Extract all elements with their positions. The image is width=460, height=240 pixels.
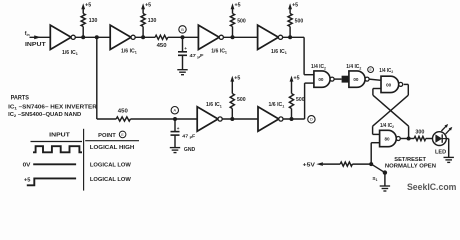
svg-text:00: 00 (318, 77, 324, 82)
node A label (171, 107, 178, 114)
svg-text:1/4 IC2: 1/4 IC2 (380, 123, 394, 129)
svg-text:1/6 IC1: 1/6 IC1 (269, 102, 285, 108)
+5 supply arrow (fourth) (288, 3, 298, 14)
svg-text:+5: +5 (145, 3, 151, 9)
wire NAND1 output, tied inputs of NAND2 (334, 76, 349, 83)
svg-text:+: + (184, 46, 187, 51)
watermark SeekIC.com (407, 182, 456, 192)
wire drop to bottom row (97, 37, 116, 119)
svg-text:00: 00 (386, 83, 392, 88)
svg-text:+: + (177, 126, 180, 131)
svg-text:D: D (310, 117, 313, 122)
ground under LED (444, 157, 454, 162)
ground under S1 (380, 186, 390, 191)
inverter 1/6 IC1 (second) (110, 25, 137, 55)
svg-text:LOGICAL LOW: LOGICAL LOW (90, 177, 132, 183)
svg-text:1/6 IC1: 1/6 IC1 (62, 50, 78, 56)
+5 supply arrow (first) (81, 3, 91, 14)
+5 supply arrow (third) (231, 3, 241, 14)
svg-text:POINT: POINT (98, 133, 116, 139)
wire inverter2 output (135, 35, 155, 39)
svg-text:1/6 IC1: 1/6 IC1 (121, 49, 137, 55)
svg-text:IC1 –SN7406– HEX INVERTER: IC1 –SN7406– HEX INVERTER (8, 104, 97, 110)
parts list text (8, 95, 97, 118)
svg-text:+5: +5 (294, 75, 300, 81)
NAND gate 1/4 IC2 (latch bottom) (380, 123, 401, 147)
svg-text:00: 00 (353, 77, 359, 82)
resistor 450 (top row) (155, 35, 168, 49)
resistor 500 pull-up (fourth) (288, 14, 303, 38)
wire LED cathode to ground (446, 139, 448, 158)
svg-text:+5: +5 (24, 177, 31, 183)
wire NAND3 output cross-couple (373, 84, 409, 134)
svg-text:NORMALLY OPEN: NORMALLY OPEN (385, 164, 436, 170)
node B label (179, 26, 186, 33)
svg-text:80: 80 (384, 137, 390, 142)
capacitor 47uF at A (171, 119, 196, 148)
svg-text:500: 500 (237, 19, 246, 25)
ground under A capacitor (170, 147, 196, 153)
switch S1 set/reset (371, 164, 387, 186)
wire switch node to NAND4 lower input (369, 143, 379, 166)
svg-text:LOGICAL LOW: LOGICAL LOW (90, 162, 132, 168)
resistor 130 pull-up (second) (141, 14, 156, 38)
wire inverter6 output to NAND1 lower input (283, 83, 314, 121)
inverter 1/6 IC1 (first) (50, 25, 78, 56)
svg-text:SET/RESET: SET/RESET (394, 157, 426, 163)
node E label (368, 67, 374, 73)
svg-text:130: 130 (148, 18, 157, 24)
svg-text:450: 450 (157, 43, 167, 49)
svg-text:500: 500 (237, 97, 246, 103)
wire NAND2 output / node E (369, 79, 381, 80)
svg-text:300: 300 (415, 129, 424, 135)
table header INPUT (31, 133, 83, 142)
+5V feed with resistor (303, 162, 372, 168)
svg-text:GND: GND (184, 147, 196, 153)
svg-text:B: B (181, 27, 184, 32)
svg-text:+5: +5 (292, 3, 298, 9)
wire inverter4 output to NAND1 upper input (283, 35, 314, 74)
inverter 1/6 IC1 (third) (198, 25, 227, 54)
resistor 500 pull-up (fifth) (230, 94, 245, 120)
waveform square wave input (33, 146, 82, 152)
capacitor 47uF at B (178, 37, 204, 69)
svg-text:+5V: +5V (303, 162, 316, 168)
input terminal f_in (25, 31, 51, 48)
wire inverter5 output (222, 117, 258, 121)
svg-text:1/6 IC1: 1/6 IC1 (206, 102, 222, 108)
wire inverter3 output (223, 35, 257, 39)
+5 supply arrow (sixth) (290, 75, 300, 93)
svg-text:IC2 –SN5400–QUAD NAND: IC2 –SN5400–QUAD NAND (8, 112, 81, 118)
label LOGICAL LOW (row3) (90, 177, 132, 183)
svg-text:LED: LED (435, 150, 446, 156)
label LOGICAL HIGH (90, 145, 135, 151)
svg-text:47 μF: 47 μF (182, 133, 195, 139)
svg-text:+5: +5 (85, 3, 91, 9)
resistor 450 (bottom row) (116, 108, 130, 121)
svg-text:SeekIC.com: SeekIC.com (407, 182, 456, 192)
LED (426, 124, 453, 156)
svg-text:1/6 IC1: 1/6 IC1 (211, 48, 227, 54)
svg-text:0V: 0V (23, 162, 31, 168)
svg-text:130: 130 (89, 18, 98, 24)
svg-text:INPUT: INPUT (49, 133, 71, 139)
svg-text:1/4 IC2: 1/4 IC2 (379, 68, 393, 74)
svg-text:500: 500 (296, 97, 305, 103)
resistor 300 (414, 129, 426, 140)
wire inverter1 output (75, 35, 110, 39)
waveform +5 step input (24, 177, 76, 185)
inverter 1/6 IC1 (fifth) (197, 102, 222, 131)
wire NAND4 output feedback cross-couple (373, 89, 414, 141)
node D label (308, 116, 315, 123)
svg-text:+5: +5 (234, 75, 240, 81)
NAND gate 1/4 IC2 (first) (311, 64, 334, 87)
inverter 1/6 IC1 (fourth) (258, 25, 287, 55)
svg-text:47 μF: 47 μF (190, 53, 204, 59)
label SET/RESET NORMALLY OPEN (385, 157, 436, 170)
svg-text:+5: +5 (235, 3, 241, 9)
svg-text:1/6 IC1: 1/6 IC1 (271, 49, 287, 55)
resistor 130 pull-up (first) (81, 14, 97, 38)
table header POINT E (85, 131, 139, 141)
svg-text:450: 450 (118, 108, 128, 114)
svg-text:PARTS: PARTS (11, 95, 29, 102)
+5 supply arrow (fifth) (230, 75, 240, 93)
+5 supply arrow (second) (141, 3, 151, 14)
NAND gate 1/4 IC2 (latch top) (379, 68, 403, 93)
svg-text:LOGICAL HIGH: LOGICAL HIGH (90, 145, 135, 151)
resistor 500 pull-up (sixth) (289, 94, 304, 120)
svg-text:INPUT: INPUT (25, 42, 47, 48)
svg-text:500: 500 (295, 19, 304, 25)
ground under B capacitor (177, 70, 187, 75)
inverter 1/6 IC1 (sixth) (258, 102, 284, 131)
wire node A (130, 117, 197, 121)
NAND gate 1/4 IC2 (second) (346, 64, 369, 87)
svg-text:1/4 IC2: 1/4 IC2 (311, 64, 326, 70)
resistor 500 pull-up (third) (230, 14, 245, 38)
wire node B (168, 35, 199, 39)
label LOGICAL LOW (row2) (90, 162, 132, 168)
table divider (83, 129, 85, 191)
svg-text:1/4 IC2: 1/4 IC2 (346, 64, 361, 70)
waveform 0V input (23, 162, 77, 168)
svg-text:A: A (173, 108, 176, 113)
